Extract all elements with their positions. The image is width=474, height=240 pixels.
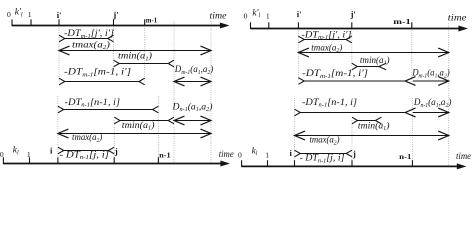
svg-text:kl​: kl​ — [13, 146, 19, 157]
dimension arrow -DTn-1[j,i] (right) — [295, 150, 353, 157]
axis tick at x=294.5 — [294, 160, 296, 167]
svg-text:1: 1 — [266, 11, 270, 20]
guide line m-1 (right top) — [411, 24, 413, 82]
axis tick at x=268.8 — [268, 22, 270, 29]
guide line B (right) — [448, 24, 450, 167]
dimension arrow tmin(a1) bottom (right) — [352, 117, 381, 124]
axis tick at x=12 — [11, 19, 13, 26]
svg-text:-DTm-1​[m-1, i']: -DTm-1​[m-1, i'] — [64, 68, 131, 79]
axis tick at x=57.9 — [57, 157, 59, 164]
svg-text:j: j — [114, 146, 118, 156]
guide line B (left) — [210, 21, 212, 163]
axis tick at x=113.5 — [113, 19, 115, 26]
guide line m-1 (left) — [144, 26, 146, 82]
svg-text:0: 0 — [244, 11, 248, 20]
svg-text:m-1: m-1 — [393, 17, 411, 26]
svg-text:k'l​: k'l​ — [252, 8, 260, 19]
axis tick at x=158.4 — [157, 157, 159, 164]
dimension arrow Dm-1(a1,a2) (right) — [413, 77, 449, 86]
guide line i-prime (left top) — [58, 26, 60, 82]
svg-text:n-1: n-1 — [399, 152, 411, 161]
svg-text:0: 0 — [7, 10, 11, 19]
svg-text:1: 1 — [265, 151, 269, 160]
guide line j-prime (left top) — [113, 26, 115, 64]
dimension arrow -DTm-1[j-prime,i-prime] (right) — [298, 36, 351, 43]
svg-text:-DTn-1​[n-1, i]: -DTn-1​[n-1, i] — [65, 98, 121, 109]
guide line j (right bottom) — [351, 120, 353, 166]
dimension arrow -DTn-1[n-1,i] (right) — [295, 108, 416, 117]
axis tick at x=29.5 — [29, 157, 31, 164]
svg-text:j': j' — [112, 9, 118, 19]
guide line i (left bottom) — [57, 96, 59, 163]
svg-text:time: time — [219, 150, 234, 160]
top time axis (right) — [251, 26, 469, 32]
svg-text:Dm-1​(a1​,a2​): Dm-1​(a1​,a2​) — [174, 64, 213, 76]
guide line A (left) — [173, 21, 175, 163]
svg-text:0: 0 — [0, 150, 4, 159]
axis tick at x=351.8 — [351, 22, 353, 29]
dimension arrow tmin(a1) top (left) — [114, 60, 175, 67]
svg-text:time: time — [210, 11, 227, 21]
dimension arrow tmax(a2) bottom (left) — [58, 129, 211, 138]
svg-text:1: 1 — [27, 150, 31, 159]
svg-text:i': i' — [297, 9, 302, 19]
svg-text:n-1: n-1 — [159, 150, 171, 159]
axis tick at x=144.7 — [144, 19, 146, 26]
svg-text:Dm-1​(a1​,a2​): Dm-1​(a1​,a2​) — [411, 68, 449, 80]
guide line i (right bottom) — [294, 98, 296, 166]
dimension arrow tmin(a1) bottom (left) — [114, 117, 174, 124]
guide line j-prime (right top) — [351, 28, 353, 67]
guide line i-prime (right top) — [297, 28, 299, 81]
axis tick at x=241.6 — [241, 160, 243, 167]
axis tick at x=59 — [58, 19, 60, 26]
dimension arrow Dn-1(a1,a2) (left) — [174, 116, 211, 125]
top time axis (left) — [12, 23, 230, 29]
axis tick at x=352 — [351, 160, 353, 167]
axis tick at x=114.2 — [113, 157, 115, 164]
dimension arrow -DTm-1[j-prime,i-prime] (left) — [59, 35, 114, 42]
dimension arrow tmax(a2) top (left) — [59, 46, 211, 55]
guide line n-1 (left) — [157, 96, 159, 163]
svg-text:1: 1 — [28, 10, 32, 19]
svg-text:kl​: kl​ — [252, 147, 258, 158]
dimension arrow tmax(a2) bottom (right) — [295, 131, 449, 140]
dimension arrow -DTn-1[n-1,i] (left) — [58, 106, 158, 113]
dimension arrow tmin(a1) top (right) — [352, 63, 386, 70]
dimension arrow -DTn-1[j,i] (left) — [58, 147, 114, 154]
svg-text:0: 0 — [238, 151, 242, 160]
dimension arrow Dn-1(a1,a2) (right) — [413, 108, 449, 117]
svg-text:i': i' — [57, 10, 62, 20]
bottom time axis (right) — [242, 163, 467, 169]
svg-text:m-1: m-1 — [146, 16, 157, 25]
axis tick at x=3.4 — [2, 157, 4, 164]
axis tick at x=267.5 — [267, 160, 269, 167]
svg-text:-DTn-1​[n-1, i]: -DTn-1​[n-1, i] — [302, 98, 357, 109]
svg-text:j': j' — [350, 9, 356, 19]
dimension arrow Dm-1(a1,a2) (left) — [174, 77, 211, 86]
dimension arrow -DTm-1[m-1,i-prime] (right) — [298, 77, 415, 86]
axis tick at x=31 — [30, 19, 32, 26]
svg-text:time: time — [448, 14, 467, 24]
dimension arrow -DTm-1[m-1,i-prime] (left) — [59, 78, 145, 85]
guide line j (left bottom) — [113, 120, 115, 163]
dimension arrow tmax(a2) top (right) — [298, 48, 448, 57]
bottom time axis (left) — [3, 161, 230, 167]
svg-text:j: j — [352, 148, 356, 158]
axis tick at x=298.4 — [297, 22, 299, 29]
axis tick at x=411.8 — [411, 22, 413, 29]
axis tick at x=412.4 — [411, 160, 413, 167]
svg-text:-DTm-1​[m-1, i']: -DTm-1​[m-1, i'] — [302, 69, 368, 80]
guide line n-1 (right bottom) — [411, 98, 413, 166]
svg-text:time: time — [456, 152, 471, 162]
axis tick at x=250.5 — [250, 22, 252, 29]
svg-text:k'l​: k'l​ — [15, 8, 23, 19]
